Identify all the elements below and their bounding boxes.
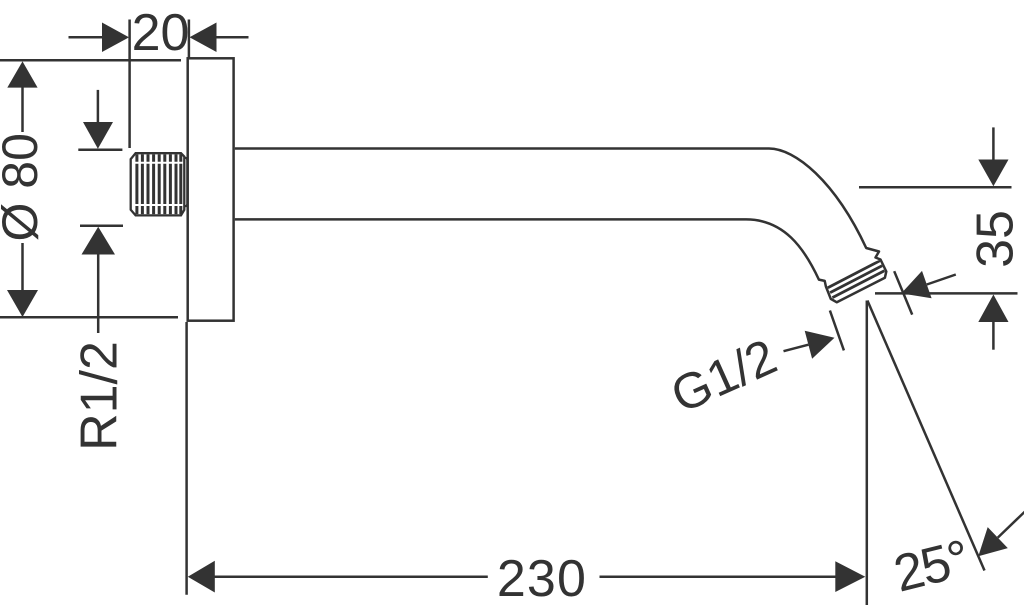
dim 35 lower stem: [992, 321, 995, 350]
wall plate extension line top: [0, 59, 181, 62]
dim R1/2 bottom tick: [80, 224, 123, 227]
dim 230 left extension line: [185, 322, 188, 595]
svg-text:35: 35: [967, 210, 1024, 268]
wall connector body R1/2 thread: [131, 153, 185, 215]
dim G1/2 right tick: [894, 271, 912, 314]
arrow 230 left: [188, 561, 215, 593]
dim R1/2 top tick: [78, 149, 122, 152]
connector lip (gasket): [182, 158, 188, 206]
dim 20 left extension line: [128, 20, 131, 149]
tip thread stripes: [828, 261, 885, 298]
angle 25 leader: [998, 511, 1024, 538]
dim 230 line right segment: [600, 576, 837, 579]
arrow 20 right (points left): [190, 23, 217, 53]
arrow Ø80 down: [7, 290, 38, 317]
svg-text:Ø 80: Ø 80: [0, 133, 48, 241]
dim Ø80 line lower stem: [21, 243, 24, 291]
angle 25 line: [867, 301, 984, 571]
dim 35 upper stem: [992, 127, 995, 161]
arrow 20 left (points right): [102, 23, 129, 53]
dim 230 right extension line: [866, 301, 869, 605]
wall connector thread chamfer gaps: [133, 163, 184, 205]
svg-text:20: 20: [132, 4, 190, 62]
arrow 35 up: [978, 295, 1008, 323]
svg-text:R1/2: R1/2: [71, 341, 129, 451]
arrow G1/2 left (points up-right): [805, 331, 835, 359]
dim R1/2 upper stem: [97, 90, 100, 123]
dim 35 bottom extension line: [875, 292, 1018, 295]
shower arm tube outline: [235, 149, 887, 303]
dim G1/2 right leader: [927, 275, 956, 285]
arrow Ø80 up: [7, 61, 37, 87]
dim Ø80 line upper stem: [21, 87, 24, 133]
dim 20 left leader: [69, 36, 104, 39]
dim 20 right extension line: [188, 20, 191, 58]
dim G1/2 left tick: [830, 311, 844, 351]
wall plate extension line bottom: [0, 316, 178, 319]
wall plate: [188, 58, 234, 320]
arrow R1/2 up: [82, 227, 116, 255]
svg-text:G1/2: G1/2: [663, 328, 785, 424]
wall connector thread stripes: [137, 154, 181, 214]
dim 230 line left segment: [214, 576, 488, 579]
dim 35 top extension line: [859, 186, 1012, 189]
svg-text:25°: 25°: [888, 529, 974, 603]
arrow 35 down: [978, 160, 1008, 187]
arrow 230 right: [835, 561, 865, 592]
arrow R1/2 down: [83, 122, 113, 149]
arrow G1/2 right (points down-left): [901, 271, 931, 298]
arrow 25 (points down-left): [978, 527, 1008, 556]
dim 20 right leader: [216, 36, 249, 39]
dim R1/2 lower stem: [97, 254, 100, 334]
dim G1/2 left leader: [784, 345, 809, 352]
svg-text:230: 230: [497, 550, 587, 605]
